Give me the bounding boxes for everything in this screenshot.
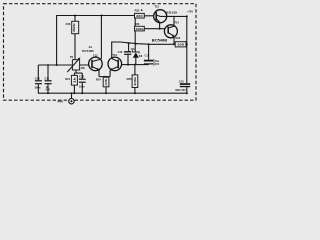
resistor R21 [65,73,77,93]
junction on rail at zener branch [134,15,136,17]
svg-text:100n: 100n [79,85,85,88]
svg-text:BC546B: BC546B [82,49,94,53]
svg-text:390n: 390n [35,86,41,90]
resistor R23 [135,8,145,18]
wire: anode node to C17 bottom [135,64,149,66]
capacitor C16 [118,43,132,64]
junction rail R24 [105,92,107,94]
svg-text:R30: R30 [135,22,140,26]
svg-text:R21: R21 [65,77,70,81]
svg-text:+70V: +70V [187,10,193,14]
svg-text:R24: R24 [96,77,101,81]
wire: right vertical bus [186,16,188,83]
wire: zener branch vertical [134,16,136,52]
junction rail R21 [73,92,75,94]
svg-text:40V: 40V [155,63,160,66]
junction rail terminal [71,92,73,94]
svg-text:63V: 63V [46,89,51,92]
transistor T15 [154,5,178,23]
wire: T13 base to zener node [122,64,136,66]
label 2x BC546B [82,45,94,53]
svg-text:R18: R18 [66,22,71,26]
junction T15 emitter on base wire [159,28,161,30]
svg-text:C16: C16 [118,50,123,54]
svg-text:100: 100 [177,42,185,46]
svg-text:T14: T14 [174,21,179,25]
capacitor C11 [44,65,51,93]
junction zener anode node [134,64,136,66]
svg-text:220: 220 [136,14,143,18]
svg-text:10k: 10k [133,76,137,86]
junction R25 at rail [134,92,136,94]
junction C17 top [148,43,150,45]
wire: T15 emitter to T14 base node [159,23,161,29]
resistor R30 [135,22,165,31]
junction zener line cross [135,43,137,45]
svg-text:45k: 45k [81,66,86,70]
junction C16 bottom on base line [127,64,129,66]
svg-text:C11: C11 [44,76,49,80]
junction rail C11 [47,92,49,94]
svg-text:82k: 82k [72,22,76,31]
capacitor C10 [35,65,42,93]
wire: left vertical from rail [56,15,58,65]
zener diode D6 [131,48,143,65]
svg-text:R25: R25 [127,77,132,81]
resistor R24 [96,77,109,94]
wire: T12 collector to rail [100,16,103,60]
wire: +70V top rail [57,15,154,17]
svg-text:R23: R23 [135,8,140,12]
transistor T13 [108,53,122,71]
svg-text:100k: 100k [135,27,144,31]
svg-text:D6: D6 [139,54,143,58]
svg-text:47k: 47k [104,78,108,86]
svg-text:C13: C13 [79,74,84,78]
wire: ground rail [38,92,187,94]
svg-text:R26: R26 [175,36,180,40]
label +70V [187,10,193,14]
capacitor C13 [79,73,86,93]
junction on rail at R18 [74,15,76,17]
svg-text:BC546B: BC546B [152,39,168,43]
svg-text:1k: 1k [72,76,76,83]
svg-text:400: 400 [57,100,63,104]
capacitor C15 [175,79,190,93]
wire: T13 collector up and to R26 line [112,42,174,59]
transistor T12 [89,53,103,70]
junction rail C13 [81,92,83,94]
svg-text:C17: C17 [145,54,150,58]
wire: T15 collector line to bus [166,15,186,17]
junction rail bus end [186,92,188,94]
svg-text:P2: P2 [70,55,74,59]
capacitor C17 [144,44,160,66]
potentiometer P2 [67,55,85,72]
resistor R26 [175,36,187,47]
enclosure dashed border [4,4,197,101]
wire: T14 collector up to +70V line [173,16,175,26]
svg-text:12V: 12V [131,48,136,51]
wire: pot bottom node [74,70,82,73]
svg-text:680n 63V: 680n 63V [175,89,186,92]
wire: wiper horizontal line [38,64,91,66]
svg-text:T12: T12 [93,53,98,57]
node: wiper line junction [56,64,58,66]
wire: T13 emitter down [109,70,111,77]
wire: T14 emitter down to R26 [173,36,175,45]
ground terminal [69,93,74,104]
node: C11 tap on wiper line [47,64,49,66]
wire: emitter join bar [99,76,110,78]
resistor R18 [66,16,79,60]
terminal label [57,100,63,104]
junction R26 at bus [186,43,188,45]
junction C16 top [128,42,130,44]
svg-text:T15: T15 [154,5,159,9]
junction R30 tap [134,28,136,30]
svg-text:C15: C15 [179,79,184,83]
svg-text:BD139: BD139 [166,10,177,14]
transistor T14 [152,21,180,43]
svg-text:C10: C10 [35,76,40,80]
wire: T12 emitter down [98,70,100,77]
resistor R25 [127,65,138,94]
junction on rail at T12 collector [101,15,103,17]
junction bus top [186,15,188,17]
